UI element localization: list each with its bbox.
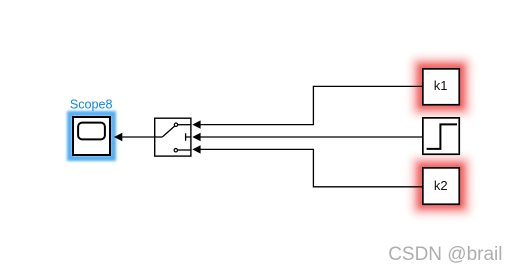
error glow k2 (420, 165, 462, 206)
arrowhead switch input 1 (192, 120, 200, 128)
switch top contact circle (174, 123, 177, 126)
step icon (427, 124, 457, 148)
svg-text:k2: k2 (434, 178, 448, 193)
switch block (155, 118, 191, 156)
arrowhead into scope (114, 133, 122, 141)
arrowhead switch input 3 (192, 145, 200, 153)
block k2 (423, 168, 459, 204)
switch bottom contact circle (174, 149, 177, 152)
step block (423, 118, 459, 154)
arrowhead switch input 2 (192, 133, 200, 141)
wire k2 to switch input 3 (200, 149, 422, 186)
block k1 (423, 69, 459, 105)
wire switch to scope (122, 136, 155, 138)
selection halo (Scope8) (70, 114, 114, 159)
scope block Scope8 (73, 117, 110, 155)
wire k1 to switch input 1 (200, 86, 422, 124)
error glow k1 (420, 66, 462, 107)
switch bottom contact line (178, 149, 192, 151)
svg-text:Scope8: Scope8 (70, 98, 113, 112)
svg-text:k1: k1 (434, 78, 448, 93)
switch top contact line (178, 124, 192, 126)
switch pole wire (155, 136, 163, 138)
wire step to switch input 2 (200, 136, 422, 138)
scope screen icon (78, 123, 105, 140)
switch threshold marker (186, 133, 192, 141)
svg-text:CSDN @brail: CSDN @brail (388, 244, 502, 265)
switch diagonal (162, 126, 174, 137)
